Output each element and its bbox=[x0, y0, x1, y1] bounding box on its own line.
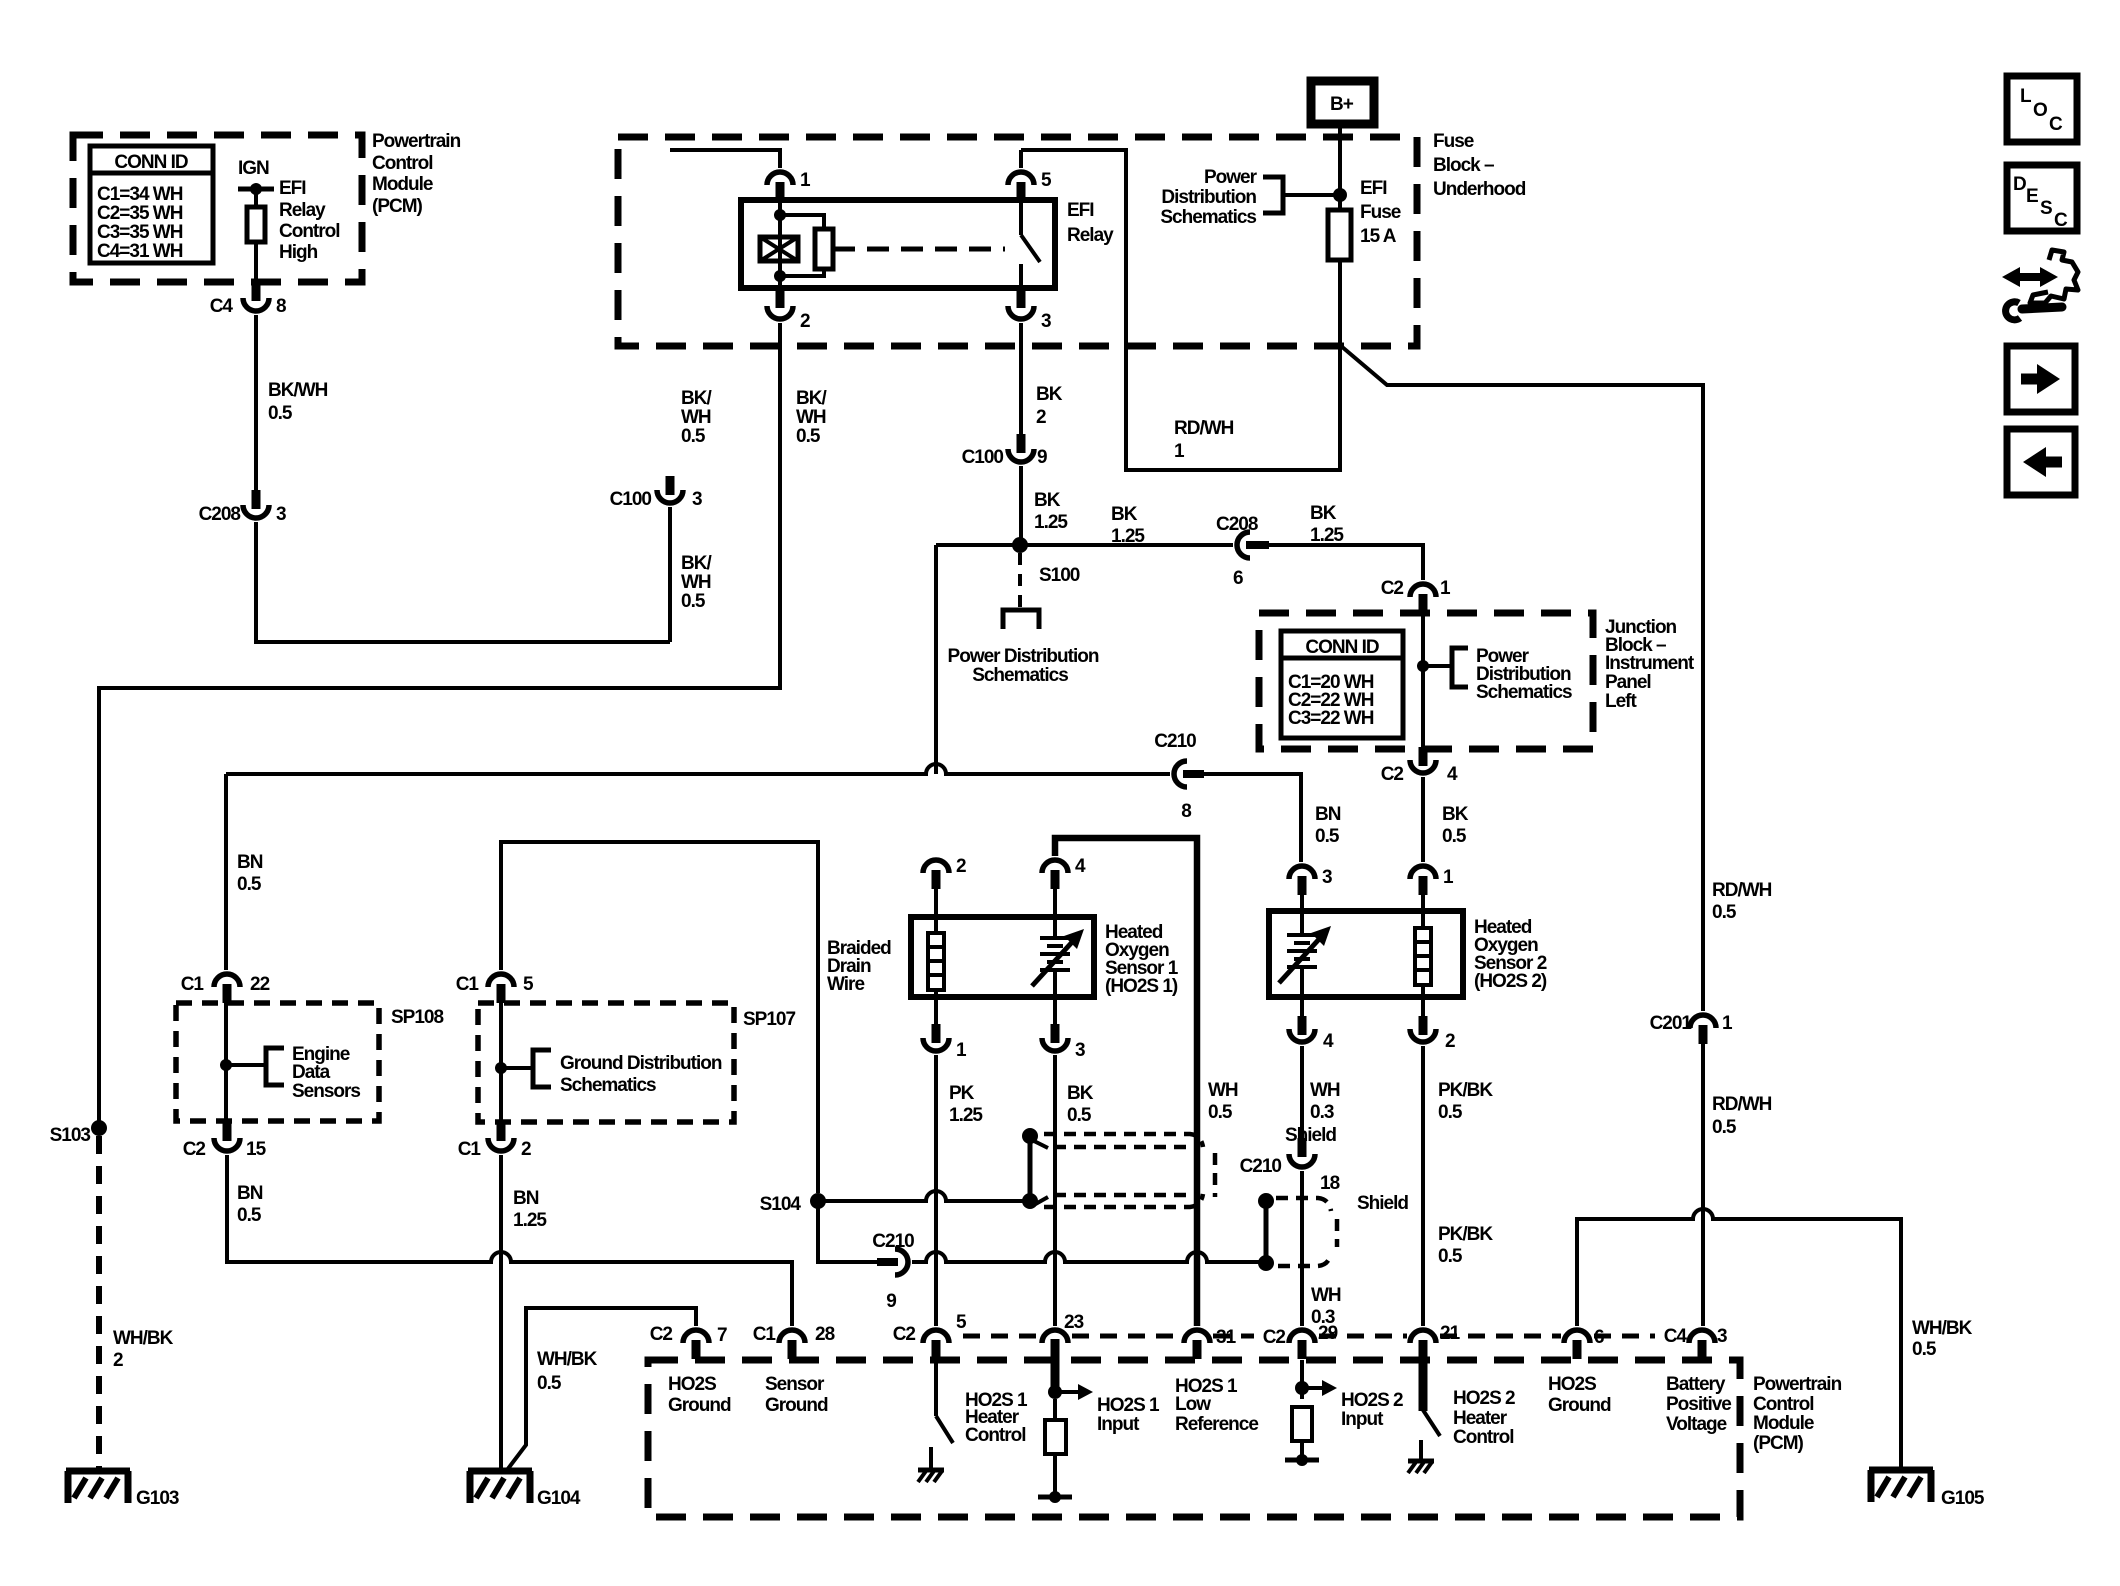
connector relay pin 2 bbox=[767, 289, 810, 332]
svg-text:2: 2 bbox=[521, 1139, 531, 1160]
resistor (HO2S1 input pull) bbox=[1045, 1399, 1066, 1497]
svg-text:5: 5 bbox=[1041, 170, 1052, 191]
svg-text:C210: C210 bbox=[1154, 731, 1196, 752]
svg-text:Power Distribution: Power Distribution bbox=[948, 646, 1099, 667]
svg-text:0.5: 0.5 bbox=[1438, 1102, 1463, 1123]
svg-text:0.5: 0.5 bbox=[237, 874, 262, 895]
label WH 0.3 (lower) bbox=[1311, 1285, 1341, 1328]
connector pin 6 bbox=[1564, 1327, 1604, 1359]
svg-text:Relay: Relay bbox=[279, 200, 326, 221]
svg-text:0.5: 0.5 bbox=[1208, 1102, 1233, 1123]
svg-text:(PCM): (PCM) bbox=[1753, 1433, 1804, 1454]
svg-text:Power: Power bbox=[1204, 167, 1258, 188]
splice S103 dot bbox=[50, 1120, 107, 1146]
relay internal dashed control line bbox=[833, 247, 1005, 252]
connector C208 pin 3 bbox=[199, 490, 286, 525]
svg-text:7: 7 bbox=[717, 1325, 727, 1346]
svg-text:C4: C4 bbox=[1664, 1326, 1688, 1347]
svg-text:Positive: Positive bbox=[1666, 1394, 1731, 1415]
connector relay pin 1 bbox=[670, 150, 811, 201]
label Powertrain Control Module (PCM) bbox=[372, 131, 461, 217]
wire C2-7 net: HO2S ground to G104 bbox=[507, 1308, 696, 1470]
B+ battery feed box bbox=[1311, 81, 1374, 124]
svg-text:(HO2S 2): (HO2S 2) bbox=[1474, 971, 1547, 992]
connector C1 pin 5 bbox=[456, 974, 534, 1003]
svg-text:BK: BK bbox=[1310, 503, 1337, 524]
label Braided Drain Wire bbox=[827, 938, 891, 995]
dashed stub from S100 to power distribution bracket bbox=[1003, 553, 1039, 629]
svg-text:WH: WH bbox=[796, 407, 826, 428]
connector C4 pin 8 bbox=[210, 282, 286, 317]
svg-text:Block –: Block – bbox=[1433, 155, 1494, 176]
svg-text:Module: Module bbox=[372, 174, 433, 195]
relay coil branch wire with junction dots bbox=[774, 200, 786, 288]
label Power Distribution Schematics (S100) bbox=[948, 646, 1099, 686]
svg-text:WH: WH bbox=[1311, 1285, 1341, 1306]
svg-text:WH/BK: WH/BK bbox=[113, 1328, 174, 1349]
svg-text:0.5: 0.5 bbox=[537, 1373, 562, 1394]
label WH 0.5 bbox=[1208, 1080, 1238, 1123]
connector C2 pin 1 (junction block top) bbox=[1381, 578, 1451, 613]
connector C1 pin 2 bbox=[458, 1122, 531, 1160]
label BK/WH 0.5 (upper, right of C100 riser) bbox=[681, 388, 712, 447]
svg-text:23: 23 bbox=[1064, 1312, 1084, 1333]
label Battery Positive Voltage bbox=[1666, 1374, 1731, 1435]
svg-text:BK/WH: BK/WH bbox=[268, 380, 328, 401]
connector pin 21 bbox=[1410, 1323, 1461, 1359]
svg-text:C2: C2 bbox=[1263, 1327, 1286, 1348]
svg-text:C2: C2 bbox=[893, 1324, 916, 1345]
svg-text:Battery: Battery bbox=[1666, 1374, 1726, 1395]
svg-text:3: 3 bbox=[1075, 1040, 1085, 1061]
wire WH/BK 2 dashed from S103 to G103 bbox=[96, 1136, 102, 1470]
connector HO2S1 pin 4 bbox=[1042, 856, 1086, 917]
shield 2 dots and bond wire bbox=[1258, 1193, 1274, 1271]
svg-text:O: O bbox=[2033, 100, 2047, 121]
signal ground (HO2S1 input) bbox=[1038, 1491, 1072, 1503]
icon forward arrow box bbox=[2007, 346, 2075, 412]
svg-text:PK/BK: PK/BK bbox=[1438, 1224, 1493, 1245]
wire RD/WH 0.5 from C201 down to C4-3 bbox=[1701, 1044, 1705, 1326]
svg-text:C1: C1 bbox=[458, 1139, 482, 1160]
svg-text:PK/BK: PK/BK bbox=[1438, 1080, 1493, 1101]
svg-text:0.5: 0.5 bbox=[796, 426, 821, 447]
svg-text:1: 1 bbox=[1722, 1013, 1733, 1034]
svg-text:C2: C2 bbox=[1381, 764, 1404, 785]
svg-text:Reference: Reference bbox=[1175, 1414, 1258, 1435]
Junction Block - Instrument Panel Left dashed box bbox=[1259, 613, 1593, 749]
svg-text:Control: Control bbox=[965, 1425, 1026, 1446]
svg-text:Input: Input bbox=[1341, 1409, 1384, 1430]
connector C100 pin 9 bbox=[962, 434, 1047, 468]
shield 1 dots and bond wire bbox=[1022, 1128, 1048, 1209]
svg-text:1: 1 bbox=[1174, 441, 1185, 462]
svg-text:C4: C4 bbox=[210, 296, 234, 317]
svg-text:(HO2S 1): (HO2S 1) bbox=[1105, 976, 1178, 997]
svg-text:3: 3 bbox=[1322, 867, 1332, 888]
HO2S2 box Heated Oxygen Sensor 2 bbox=[1269, 911, 1463, 997]
wire from C1-5 up, right, down to S104 bbox=[501, 842, 818, 1193]
svg-text:Ground Distribution: Ground Distribution bbox=[560, 1053, 722, 1074]
wire through SP108 bbox=[220, 990, 232, 1122]
HO2S1 input branch: stub, dot, arrow bbox=[1048, 1339, 1093, 1400]
svg-text:CONN ID: CONN ID bbox=[1305, 637, 1379, 658]
svg-text:6: 6 bbox=[1233, 568, 1243, 589]
connector HO2S2 pin 2 bbox=[1410, 997, 1455, 1052]
connector HO2S2 pin 1 bbox=[1410, 866, 1454, 911]
svg-text:4: 4 bbox=[1323, 1031, 1334, 1052]
label EFI Relay bbox=[1067, 200, 1114, 246]
svg-text:HO2S 2: HO2S 2 bbox=[1341, 1390, 1403, 1411]
label Sensor Ground bbox=[765, 1374, 828, 1416]
bracket to Engine Data Sensors bbox=[226, 1048, 284, 1085]
svg-text:WH: WH bbox=[1208, 1080, 1238, 1101]
relay coil symbol (crossed box) bbox=[760, 237, 798, 261]
svg-text:C4=31 WH: C4=31 WH bbox=[97, 241, 183, 262]
svg-text:C201: C201 bbox=[1650, 1013, 1693, 1034]
svg-text:D: D bbox=[2013, 174, 2026, 195]
svg-text:E: E bbox=[2026, 186, 2038, 207]
label Fuse Block - Underhood bbox=[1433, 131, 1526, 200]
splice S104 dot bbox=[760, 1193, 826, 1215]
svg-text:C: C bbox=[2049, 114, 2063, 135]
svg-text:PK: PK bbox=[949, 1083, 975, 1104]
bracket to Ground Distribution Schematics bbox=[501, 1050, 551, 1087]
label HO2S 2 Heater Control bbox=[1453, 1388, 1515, 1448]
connector C210 pin 8 (inline) bbox=[1154, 731, 1204, 822]
svg-text:Shield: Shield bbox=[1285, 1125, 1336, 1146]
svg-text:Panel: Panel bbox=[1605, 672, 1651, 693]
shield 2 dashed cylinder bbox=[1276, 1198, 1337, 1266]
label HO2S 1 Low Reference bbox=[1175, 1376, 1258, 1435]
svg-text:15 A: 15 A bbox=[1360, 226, 1397, 247]
svg-text:0.5: 0.5 bbox=[1712, 1117, 1737, 1138]
svg-text:C208: C208 bbox=[1216, 514, 1258, 535]
svg-text:BK/: BK/ bbox=[681, 553, 712, 574]
svg-text:4: 4 bbox=[1447, 764, 1458, 785]
wire WH 0.3 from C210-18 down to PCM C2-29 bbox=[1300, 1171, 1304, 1326]
svg-text:0.5: 0.5 bbox=[1067, 1105, 1092, 1126]
svg-text:RD/WH: RD/WH bbox=[1712, 1094, 1772, 1115]
label BK/WH 0.5 (lower) bbox=[681, 553, 712, 612]
connector HO2S1 pin 2 bbox=[923, 856, 966, 917]
label Engine Data Sensors bbox=[292, 1044, 360, 1102]
svg-text:EFI: EFI bbox=[279, 178, 306, 199]
label Shield (2) bbox=[1357, 1193, 1408, 1214]
svg-text:31: 31 bbox=[1216, 1327, 1237, 1348]
svg-text:1.25: 1.25 bbox=[949, 1105, 983, 1126]
wire B+ down to junction dot bbox=[1333, 124, 1347, 210]
svg-text:0.5: 0.5 bbox=[681, 426, 706, 447]
wire fuse output down and feed loop to relay pin 5 bbox=[1021, 150, 1340, 470]
svg-text:2: 2 bbox=[956, 856, 966, 877]
label HO2S Ground (pin 7) bbox=[668, 1374, 731, 1416]
bracket to Power Distribution Schematics bbox=[1263, 177, 1340, 213]
svg-text:RD/WH: RD/WH bbox=[1712, 880, 1772, 901]
resistor (HO2S2 input pull) bbox=[1292, 1407, 1312, 1460]
label IGN bbox=[238, 158, 269, 179]
svg-text:BK: BK bbox=[1067, 1083, 1094, 1104]
icon back arrow box bbox=[2007, 429, 2075, 495]
label BK/WH 0.5 bbox=[268, 380, 328, 424]
label HO2S 2 Input bbox=[1341, 1390, 1403, 1430]
wire BN 0.5 from C2-15 down, right to C1-28 riser (hop over x=501) bbox=[227, 1155, 792, 1326]
svg-text:C2=35 WH: C2=35 WH bbox=[97, 203, 183, 224]
svg-text:Module: Module bbox=[1753, 1413, 1814, 1434]
svg-text:15: 15 bbox=[246, 1139, 267, 1160]
svg-text:C100: C100 bbox=[962, 447, 1004, 468]
svg-text:Instrument: Instrument bbox=[1605, 653, 1695, 674]
svg-text:C: C bbox=[2054, 210, 2068, 231]
svg-text:C2: C2 bbox=[1381, 578, 1404, 599]
svg-text:C2: C2 bbox=[650, 1324, 673, 1345]
wire PK/BK 0.5 from pin 2 down to PCM pin 21 bbox=[1421, 1046, 1425, 1326]
svg-text:0.5: 0.5 bbox=[237, 1205, 262, 1226]
svg-text:3: 3 bbox=[692, 489, 702, 510]
svg-text:6: 6 bbox=[1594, 1327, 1604, 1348]
ground G104 bbox=[468, 1471, 581, 1509]
svg-text:0.3: 0.3 bbox=[1310, 1102, 1334, 1123]
SP108 dashed box bbox=[176, 1003, 443, 1121]
svg-text:18: 18 bbox=[1320, 1173, 1340, 1194]
connector pin 31 bbox=[1184, 1327, 1237, 1359]
icon vehicle direction (car outline, double arrow, wrench) bbox=[2002, 250, 2078, 320]
wire WH 0.3 from pin 4 down to C210-18 bbox=[1300, 1046, 1304, 1138]
PCM (top-left) dashed box: Powertrain Control Module bbox=[73, 135, 362, 282]
svg-text:Input: Input bbox=[1097, 1414, 1140, 1435]
svg-text:Voltage: Voltage bbox=[1666, 1414, 1727, 1435]
HO2S1 sensor element (variable cell with arrow) bbox=[1032, 917, 1084, 997]
svg-text:1: 1 bbox=[1443, 867, 1454, 888]
label BK 1.25 (C100-9 to S100) bbox=[1034, 490, 1068, 533]
connector C2 pin 29 bbox=[1263, 1323, 1338, 1359]
svg-text:WH/BK: WH/BK bbox=[537, 1349, 598, 1370]
svg-text:Schematics: Schematics bbox=[1476, 682, 1572, 703]
svg-text:Heater: Heater bbox=[1453, 1408, 1508, 1429]
svg-text:S: S bbox=[2040, 198, 2052, 219]
svg-text:9: 9 bbox=[1037, 447, 1047, 468]
wire S100 horizontal rail y=545 bbox=[936, 545, 1423, 774]
label BK 0.5 (C2-4 wire) bbox=[1442, 804, 1469, 847]
svg-text:WH: WH bbox=[681, 572, 711, 593]
HO2S1 box Heated Oxygen Sensor 1 bbox=[911, 917, 1094, 997]
svg-text:G105: G105 bbox=[1941, 1488, 1985, 1509]
svg-text:2: 2 bbox=[800, 311, 810, 332]
svg-text:HO2S 2: HO2S 2 bbox=[1453, 1388, 1515, 1409]
connector relay pin 3 bbox=[1008, 289, 1051, 332]
svg-text:BK/: BK/ bbox=[681, 388, 712, 409]
label RD/WH 1 bbox=[1174, 418, 1234, 462]
wire BK/WH 0.5 below C100-3 to corner bbox=[668, 507, 672, 642]
svg-text:Ground: Ground bbox=[1548, 1395, 1611, 1416]
connector HO2S2 pin 3 bbox=[1289, 866, 1332, 911]
CONN ID table (junction block) bbox=[1281, 631, 1403, 738]
label Heated Oxygen Sensor 1 (HO2S 1) bbox=[1105, 922, 1179, 997]
dashed connector bus row bbox=[963, 1334, 1655, 1339]
svg-text:28: 28 bbox=[815, 1324, 835, 1345]
HO2S1 heater element bbox=[928, 917, 944, 997]
svg-text:C1: C1 bbox=[181, 974, 205, 995]
svg-text:IGN: IGN bbox=[238, 158, 269, 179]
label RD/WH 0.5 (below C201) bbox=[1712, 1094, 1772, 1138]
connector C100 pin 3 bbox=[610, 476, 702, 510]
svg-text:Wire: Wire bbox=[827, 974, 864, 995]
svg-text:High: High bbox=[279, 242, 318, 263]
label PK/BK 0.5 (lower) bbox=[1438, 1224, 1493, 1267]
svg-text:21: 21 bbox=[1440, 1323, 1461, 1344]
svg-text:S100: S100 bbox=[1039, 565, 1080, 586]
svg-text:HO2S: HO2S bbox=[1548, 1374, 1596, 1395]
svg-text:C100: C100 bbox=[610, 489, 652, 510]
svg-text:Underhood: Underhood bbox=[1433, 179, 1526, 200]
svg-text:G103: G103 bbox=[136, 1488, 179, 1509]
label Ground Distribution Schematics bbox=[560, 1053, 722, 1096]
svg-text:9: 9 bbox=[886, 1291, 896, 1312]
wire from C210-8 right then down to HO2S2 pin 3 bbox=[1204, 774, 1301, 862]
svg-text:C210: C210 bbox=[1240, 1156, 1282, 1177]
wire BN 0.5 from corner down to C1-22 bbox=[224, 774, 228, 970]
wire PK 1.25 from pin 1 down to PCM C2-5 bbox=[934, 1055, 938, 1326]
connector C2 pin 5 bbox=[893, 1312, 967, 1359]
svg-text:Sensor: Sensor bbox=[765, 1374, 825, 1395]
connector C1 pin 28 bbox=[753, 1324, 835, 1359]
connector C2 pin 7 bbox=[650, 1324, 727, 1359]
wire through junction block bbox=[1417, 613, 1429, 749]
label HO2S Ground (pin 6) bbox=[1548, 1374, 1611, 1416]
svg-text:BN: BN bbox=[237, 852, 263, 873]
svg-text:Control: Control bbox=[372, 153, 433, 174]
svg-text:4: 4 bbox=[1075, 856, 1086, 877]
svg-text:BK/: BK/ bbox=[796, 388, 827, 409]
svg-text:Data: Data bbox=[292, 1062, 331, 1083]
label WH 0.3 (upper) bbox=[1310, 1080, 1340, 1123]
connector C4 pin 3 bbox=[1664, 1326, 1727, 1359]
label HO2S 1 Heater Control bbox=[965, 1390, 1028, 1446]
wire S104 horizontal to shield 1 (hop over x=936) bbox=[818, 1191, 1030, 1201]
connector HO2S1 pin 1 bbox=[923, 997, 967, 1061]
svg-text:BN: BN bbox=[1315, 804, 1341, 825]
svg-text:Ground: Ground bbox=[668, 1395, 731, 1416]
label Heated Oxygen Sensor 2 (HO2S 2) bbox=[1474, 917, 1547, 992]
label Power Distribution Schematics (junction block) bbox=[1476, 646, 1572, 703]
svg-text:Schematics: Schematics bbox=[972, 665, 1068, 686]
svg-text:2: 2 bbox=[113, 1350, 123, 1371]
Powertrain Control Module (PCM) dashed box (bottom) bbox=[648, 1360, 1740, 1517]
svg-text:Control: Control bbox=[1453, 1427, 1514, 1448]
svg-text:WH: WH bbox=[1310, 1080, 1340, 1101]
svg-text:Distribution: Distribution bbox=[1161, 187, 1256, 208]
svg-text:BK: BK bbox=[1111, 504, 1138, 525]
wire BK 2 from relay pin 3 down to C100-9 bbox=[1019, 323, 1023, 434]
svg-text:BK: BK bbox=[1034, 490, 1061, 511]
label HO2S 1 Input bbox=[1097, 1395, 1160, 1435]
label BN 1.25 bbox=[513, 1188, 547, 1231]
shield 1 dashed cylinder bbox=[1044, 1134, 1215, 1207]
wire BK 0.5 from C2-4 down to HO2S2 pin 1 bbox=[1421, 777, 1425, 862]
svg-text:1: 1 bbox=[1440, 578, 1451, 599]
label PK 1.25 bbox=[949, 1083, 983, 1126]
svg-text:5: 5 bbox=[956, 1312, 967, 1333]
switch HO2S1 heater control bbox=[918, 1359, 953, 1482]
HO2S2 heater element bbox=[1415, 911, 1431, 997]
svg-text:BK: BK bbox=[1442, 804, 1469, 825]
svg-text:Low: Low bbox=[1175, 1394, 1211, 1415]
svg-text:8: 8 bbox=[276, 296, 286, 317]
svg-text:0.5: 0.5 bbox=[1712, 902, 1737, 923]
svg-text:Left: Left bbox=[1605, 691, 1638, 712]
label BN 0.5 (left rail) bbox=[237, 852, 263, 895]
connector C210 pin 18 bbox=[1240, 1138, 1340, 1194]
svg-text:5: 5 bbox=[523, 974, 534, 995]
label BN 0.5 (below C2-15) bbox=[237, 1183, 263, 1226]
svg-text:HO2S 1: HO2S 1 bbox=[1097, 1395, 1160, 1416]
signal ground (HO2S2 input) bbox=[1285, 1454, 1319, 1466]
svg-text:8: 8 bbox=[1181, 801, 1191, 822]
node IGN bar bbox=[238, 183, 274, 195]
wire BK/WH 0.5 from C4-8 down to C208-3 bbox=[254, 315, 258, 492]
label BN 0.5 (left of C2-4 wire) bbox=[1315, 804, 1341, 847]
svg-text:0.5: 0.5 bbox=[681, 591, 706, 612]
Fuse Block - Underhood dashed box bbox=[618, 137, 1417, 346]
svg-text:C3=22 WH: C3=22 WH bbox=[1288, 708, 1374, 729]
label EFI Relay Control High bbox=[279, 178, 340, 263]
svg-text:S103: S103 bbox=[50, 1125, 91, 1146]
connector C1 pin 22 bbox=[181, 974, 270, 1003]
resistor EFI relay control (inside PCM) bbox=[247, 189, 265, 282]
svg-text:Relay: Relay bbox=[1067, 225, 1114, 246]
switch HO2S2 heater control bbox=[1408, 1359, 1440, 1473]
label Junction Block - Instrument Panel Left bbox=[1605, 617, 1695, 712]
svg-text:Powertrain: Powertrain bbox=[372, 131, 461, 152]
wire RD/WH branch diagonal from fuse output to right rail bbox=[1341, 346, 1703, 1011]
svg-text:SP107: SP107 bbox=[743, 1009, 795, 1030]
connector C2 pin 4 (junction block bottom) bbox=[1381, 747, 1458, 785]
label EFI Fuse 15 A bbox=[1360, 178, 1401, 247]
svg-text:1: 1 bbox=[956, 1040, 967, 1061]
svg-text:1.25: 1.25 bbox=[1034, 512, 1068, 533]
label BK 1.25 (right of C208-6) bbox=[1310, 503, 1344, 546]
svg-text:1.25: 1.25 bbox=[513, 1210, 547, 1231]
label BK 1.25 (left of C208-6) bbox=[1111, 504, 1145, 547]
svg-text:Schematics: Schematics bbox=[1160, 207, 1256, 228]
svg-text:C3=35 WH: C3=35 WH bbox=[97, 222, 183, 243]
svg-text:CONN ID: CONN ID bbox=[114, 152, 188, 173]
connector C201 pin 1 bbox=[1650, 1013, 1733, 1044]
svg-text:Fuse: Fuse bbox=[1360, 202, 1401, 223]
ground G105 bbox=[1869, 1470, 1985, 1509]
svg-text:SP108: SP108 bbox=[391, 1007, 443, 1028]
svg-text:BN: BN bbox=[513, 1188, 539, 1209]
svg-text:0.5: 0.5 bbox=[1438, 1246, 1463, 1267]
label Power Distribution Schematics (fuse block) bbox=[1160, 167, 1257, 228]
HO2S2 sensor element (variable cell with arrow) bbox=[1279, 911, 1331, 997]
wire from C208-3 down then right to C100-3 riser bbox=[256, 522, 670, 642]
label WH/BK 2 bbox=[113, 1328, 174, 1371]
svg-text:B+: B+ bbox=[1330, 94, 1354, 115]
svg-text:3: 3 bbox=[276, 504, 286, 525]
label BK/WH 0.5 (relay pin 2 wire) bbox=[796, 388, 827, 447]
svg-text:0.5: 0.5 bbox=[1442, 826, 1467, 847]
svg-text:Ground: Ground bbox=[765, 1395, 828, 1416]
wire thick loop from pin 4 up over box to WH 0.5 rail bbox=[1055, 838, 1197, 1326]
svg-text:2: 2 bbox=[1445, 1031, 1455, 1052]
connector C2 pin 15 bbox=[183, 1122, 267, 1160]
svg-text:C208: C208 bbox=[199, 504, 241, 525]
relay switch blade bbox=[1021, 200, 1040, 288]
svg-text:WH/BK: WH/BK bbox=[1912, 1318, 1973, 1339]
icon DESC box bbox=[2007, 165, 2077, 231]
label Powertrain Control Module (PCM) (bottom right) bbox=[1753, 1374, 1842, 1454]
